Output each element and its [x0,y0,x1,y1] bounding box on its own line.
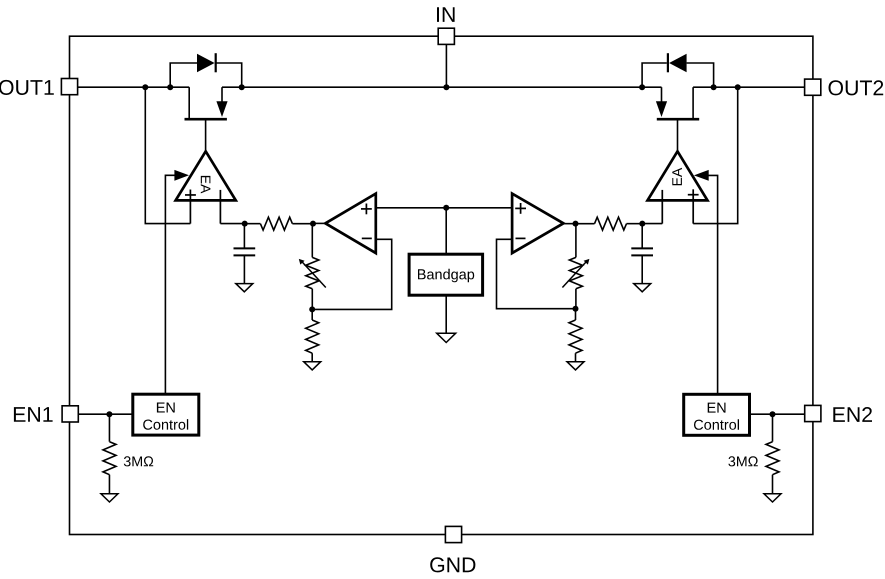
U1 - input mark and stub [219,190,221,224]
node F (right divider tap) [573,306,579,312]
label U1 EA [201,176,211,194]
wire node D to R5 [576,223,595,225]
pin OUT2 [805,79,821,95]
wire OUT1 feedback to U1 + [145,87,190,223]
wire EN1 pin to EN Control [78,413,133,415]
U4 + input mark [515,207,526,209]
block EN Control 2 [684,394,750,435]
U3 + input mark [361,208,372,210]
wire R5 to node E [627,223,643,225]
diode D2 (body diode) [667,53,669,72]
wire EN2 enable to U2 [709,175,718,394]
label U2 EA [672,168,682,186]
wire node D to R6 [575,224,577,258]
wire R3 to ground [311,353,313,362]
transistor Q1 (PMOS pass FET) [185,87,228,151]
wire U4 output [563,223,576,225]
wire D1 cathode branch [216,63,242,87]
U1 + input mark and stub [185,194,196,196]
wire node A to R1 [245,223,261,225]
U2 - input mark and stub [661,190,663,224]
wire node F to R7 [575,309,577,320]
node OUT1 feedback tap [142,84,148,90]
U2 + input mark and stub [688,194,699,196]
wire OUT1 rail [78,86,190,88]
pin OUT1 [61,79,77,95]
node D2 cathode/rail [639,84,645,90]
wire node C to R3 [311,309,313,320]
wire OUT2 feedback to U2 + [693,87,738,223]
wire D1 anode branch [170,63,197,87]
wire U2 - to node E [642,223,662,225]
ground under C2 [634,284,651,292]
wire D2 cathode branch [642,63,667,87]
IC boundary [70,36,813,534]
wire bandgap reference line [376,207,512,209]
capacitor C2 [631,224,653,284]
ground under R4 [101,494,118,502]
resistor R5 [595,217,627,230]
wire D2 anode branch [687,63,714,87]
pin GND label [430,557,475,572]
label Bandgap [418,269,474,283]
wire R1 to node B [292,223,313,225]
label R8 3Mohm [728,456,757,466]
wire IN pin drop [445,44,447,87]
wire R6 to node F [575,289,577,309]
U4 - input mark [516,237,526,239]
wire U1 - to node A [220,223,244,225]
op-amp U2 error amplifier EA [648,151,708,200]
wire node F to U4 - [497,239,576,308]
pin EN1 [62,406,78,422]
pin EN2 label [833,407,872,422]
pin GND [445,526,461,542]
node EN1 junction [106,411,112,417]
pin OUT2 label [829,80,884,95]
pin IN [438,28,454,44]
resistor R6 (adjustable) [569,257,582,288]
node EN2 junction [770,411,776,417]
diode D1 (body diode) [197,54,215,73]
node IN/rail junction [443,84,449,90]
ground under R8 [764,494,781,502]
transistor Q2 (PMOS pass FET) [656,87,699,151]
pin OUT1 label [0,80,54,95]
resistor R1 [260,217,292,230]
wire R7 to ground [575,353,577,362]
pin EN2 [805,405,821,421]
wire R2 to node C [311,289,313,310]
node E (right EA minus node) [639,221,645,227]
wire EN1 enable to U1 [165,175,174,394]
wire node B to R2 [311,224,313,258]
pin IN label [437,7,455,22]
arrow R2 wiper [302,262,326,288]
wire node C to U3 - [312,239,392,309]
arrow enable into U2 [694,170,709,181]
node D (right buffer output) [573,221,579,227]
label EN Control 1 [157,403,175,413]
arrow enable into U1 [174,170,189,181]
resistor R8 3Mohm [772,414,774,442]
op-amp U1 error amplifier EA [176,151,236,200]
pin EN1 label [14,407,53,422]
node reference junction [443,205,449,211]
ground under C1 [236,284,253,292]
node D1 cathode/rail [239,84,245,90]
wire IN rail [222,86,662,88]
node B (left buffer output) [310,221,316,227]
node D1 anode/rail [167,84,173,90]
resistor R4 3Mohm [108,414,110,442]
arrow R6 wiper [562,262,586,288]
resistor R3 [306,320,319,353]
wire U3 output [313,222,326,224]
node A (left EA minus node) [242,221,248,227]
wire Bandgap to ground [445,295,447,333]
block EN Control 1 [133,394,199,435]
block U5 Bandgap [409,254,483,295]
ground under Bandgap [437,333,456,342]
wire reference to Bandgap [445,208,447,254]
wire OUT2 rail [693,86,805,88]
U3 - input mark [362,237,372,239]
wire EN2 pin to EN Control [750,413,805,415]
capacitor C1 [234,224,256,284]
op-amp U3 buffer [325,194,375,254]
op-amp U4 buffer [512,194,563,254]
label EN Control 2 [708,403,726,413]
node D2 anode/rail [711,84,717,90]
ground under R7 [567,362,584,370]
ground under R3 [304,362,321,370]
resistor R7 [569,320,582,353]
node C (left divider tap) [309,306,315,312]
resistor R2 (adjustable) [306,257,319,288]
node OUT2 feedback tap [735,84,741,90]
label R4 3Mohm [124,456,153,466]
